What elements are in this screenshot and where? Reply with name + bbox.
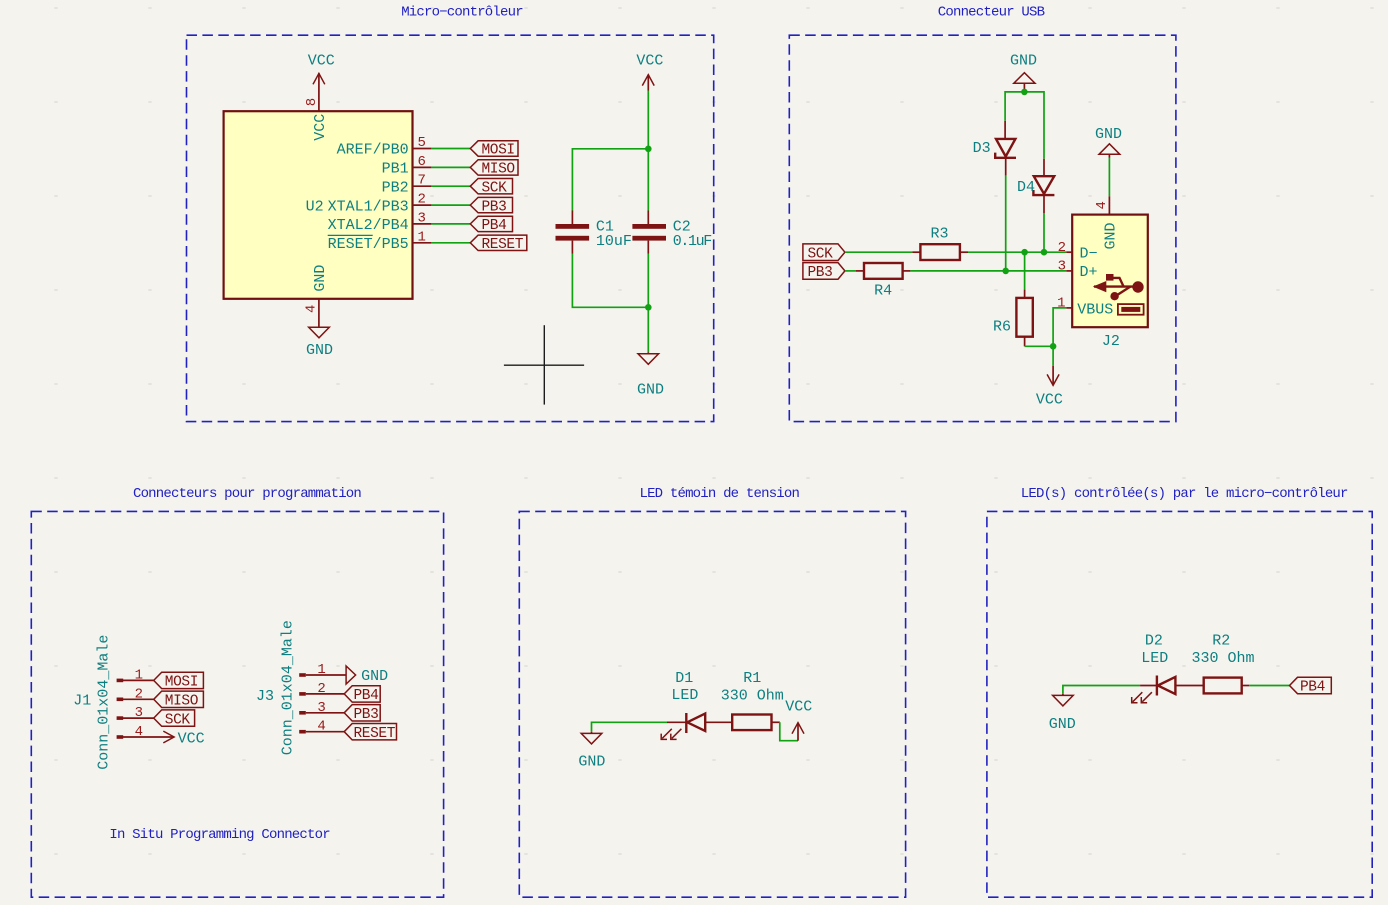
svg-text:PB2: PB2 — [382, 179, 409, 196]
wire VCC vertical — [647, 91, 649, 149]
wire R3 to J2 D- — [968, 251, 1066, 253]
hierarchical label SCK — [470, 179, 512, 197]
wire PB3 — [431, 204, 470, 206]
svg-text:RESET/PB5: RESET/PB5 — [328, 236, 409, 253]
resistor R1 — [732, 715, 780, 731]
svg-text:0.1uF: 0.1uF — [673, 233, 711, 250]
svg-text:D−: D− — [1080, 245, 1098, 262]
pin 4 line (U2 bottom) — [318, 299, 320, 327]
svg-text:U2: U2 — [306, 198, 324, 215]
svg-text:3: 3 — [417, 210, 425, 226]
global label MOSI (J1) — [154, 672, 204, 690]
J1 pin 3 — [117, 705, 154, 721]
section box Micro-controleur — [187, 35, 714, 421]
wire RESET — [431, 242, 470, 244]
resistor R3 — [912, 244, 968, 260]
svg-text:D3: D3 — [973, 140, 991, 157]
pin 5 AREF/PB0 — [337, 135, 432, 159]
svg-text:LED: LED — [671, 687, 698, 704]
section box LED temoin de tension — [519, 511, 905, 897]
hierarchical label PB3 — [470, 197, 512, 215]
svg-text:R2: R2 — [1212, 633, 1230, 650]
node junction VBUS/VCC — [1050, 343, 1057, 350]
svg-text:GND: GND — [1049, 716, 1076, 733]
svg-text:GND: GND — [637, 382, 664, 399]
hierarchical label PB4 — [470, 216, 512, 234]
svg-text:1: 1 — [135, 667, 143, 683]
svg-text:VCC: VCC — [1036, 392, 1063, 409]
J3 pin 1 — [299, 662, 346, 678]
svg-text:GND: GND — [1095, 126, 1122, 143]
power symbol VCC (down) — [1036, 366, 1063, 409]
power symbol VCC (above C2) — [636, 52, 663, 90]
svg-text:Conn_01x04_Male: Conn_01x04_Male — [280, 620, 297, 755]
svg-text:SCK: SCK — [165, 712, 191, 728]
svg-text:330 Ohm: 330 Ohm — [1192, 650, 1255, 667]
svg-text:GND: GND — [1010, 52, 1037, 69]
USB icon — [1093, 274, 1144, 315]
pin 2 D- — [1058, 240, 1098, 262]
capacitor C2 — [632, 211, 666, 254]
wire R2 to PB4 — [1249, 685, 1289, 687]
hierarchical label PB4 (D2) — [1290, 677, 1332, 695]
power symbol GND (right, inverted) — [1095, 126, 1122, 158]
resistor R2 — [1204, 678, 1249, 694]
diode D3 — [995, 121, 1016, 176]
svg-text:J1: J1 — [73, 692, 91, 709]
global label SCK (J1) — [154, 710, 195, 728]
svg-text:PB3: PB3 — [808, 265, 833, 281]
J3 pin 4 — [299, 719, 344, 735]
svg-text:3: 3 — [317, 700, 325, 716]
wire PB3 to R4 — [845, 270, 856, 272]
svg-text:VCC: VCC — [308, 52, 335, 69]
pin 3 XTAL2/PB4 — [328, 210, 432, 234]
power symbol GND (right, J3 pin 1) — [346, 666, 388, 685]
wire VCC drop — [1052, 346, 1054, 366]
svg-text:1: 1 — [417, 229, 425, 245]
svg-text:VCC: VCC — [785, 698, 812, 715]
wire R4 to J2 D+ — [910, 270, 1066, 272]
wire D3 to D+ — [1005, 176, 1007, 271]
power symbol VCC (above U2) — [308, 52, 335, 111]
resistor R4 — [856, 263, 910, 279]
pin 1 RESET/PB5 — [328, 229, 432, 253]
hierarchical label RESET — [470, 235, 527, 253]
svg-text:Conn_01x04_Male: Conn_01x04_Male — [96, 635, 113, 770]
svg-text:GND: GND — [312, 265, 329, 292]
wire SCK to R3 — [845, 251, 913, 253]
svg-text:2: 2 — [317, 681, 325, 697]
capacitor C1 — [556, 211, 590, 254]
ground symbol (D2) — [1053, 694, 1074, 706]
svg-text:6: 6 — [417, 154, 425, 170]
svg-text:1: 1 — [1057, 296, 1065, 312]
svg-text:RESET: RESET — [482, 237, 524, 253]
svg-text:3: 3 — [135, 705, 143, 721]
ground symbol (below U2) — [309, 327, 330, 338]
connector J2 body — [1072, 215, 1148, 328]
diode D4 — [1033, 159, 1054, 213]
LED D1 — [661, 713, 732, 739]
svg-text:2: 2 — [1058, 240, 1066, 256]
svg-text:SCK: SCK — [808, 246, 834, 262]
wire C1 branch top — [572, 149, 648, 211]
svg-text:GND: GND — [1103, 222, 1120, 249]
J3 pin 3 — [299, 700, 344, 716]
svg-text:XTAL1/PB3: XTAL1/PB3 — [328, 198, 409, 215]
svg-text:AREF/PB0: AREF/PB0 — [337, 142, 409, 159]
svg-text:VCC: VCC — [312, 114, 329, 141]
svg-text:MOSI: MOSI — [165, 675, 198, 691]
svg-text:VCC: VCC — [636, 52, 663, 69]
svg-text:1: 1 — [317, 662, 325, 678]
svg-text:PB4: PB4 — [482, 218, 507, 234]
ground symbol (below C2) — [638, 352, 659, 364]
wire R6 to VCC node — [1025, 345, 1054, 347]
svg-text:R3: R3 — [931, 226, 949, 243]
power symbol GND (top, inverted) — [1010, 52, 1037, 90]
svg-text:GND: GND — [306, 342, 333, 359]
svg-text:Micro−contrôleur: Micro−contrôleur — [401, 5, 523, 21]
wire GND to D1 — [592, 722, 668, 732]
svg-text:SCK: SCK — [482, 180, 508, 196]
svg-text:4: 4 — [135, 724, 143, 740]
pin 1 VBUS — [1057, 296, 1113, 319]
svg-text:5: 5 — [417, 135, 425, 151]
wire C1 branch bottom — [572, 254, 648, 308]
pin 2 XTAL1/PB3 — [328, 192, 432, 216]
svg-text:VCC: VCC — [178, 730, 205, 747]
svg-text:D+: D+ — [1080, 264, 1098, 281]
svg-text:8: 8 — [304, 98, 320, 106]
J1 pin 2 — [117, 686, 154, 702]
svg-text:Connecteurs pour programmation: Connecteurs pour programmation — [133, 486, 361, 502]
node junction R6/D- — [1021, 249, 1028, 256]
global label PB4 (J3) — [344, 686, 380, 704]
svg-text:4: 4 — [304, 305, 320, 313]
svg-text:VBUS: VBUS — [1077, 301, 1113, 318]
global label SCK — [803, 244, 845, 263]
svg-text:4: 4 — [1094, 201, 1110, 209]
wire GND to D2 — [1063, 686, 1140, 694]
svg-text:R1: R1 — [743, 670, 761, 687]
power symbol VCC (D1) — [785, 698, 812, 740]
svg-text:J2: J2 — [1102, 333, 1120, 350]
wire D4 to D- — [1043, 213, 1045, 252]
pin 4 line J2 — [1108, 196, 1110, 214]
global label MISO (J1) — [154, 691, 204, 709]
graphic cross line horizontal — [504, 364, 584, 366]
svg-text:LED: LED — [1141, 650, 1168, 667]
hierarchical label MISO — [470, 160, 518, 178]
J1 pin 1 — [117, 667, 154, 683]
svg-text:2: 2 — [417, 192, 425, 208]
pin 6 PB1 — [382, 154, 432, 178]
resistor R6 — [1016, 290, 1032, 347]
wire R1 to VCC — [780, 722, 798, 740]
pin 7 PB2 — [382, 173, 432, 197]
wire C2 top — [647, 149, 649, 211]
svg-text:PB3: PB3 — [482, 199, 507, 215]
wire GND header — [1005, 92, 1044, 159]
svg-text:XTAL2/PB4: XTAL2/PB4 — [328, 217, 409, 234]
svg-text:MISO: MISO — [482, 162, 515, 178]
svg-text:MOSI: MOSI — [482, 143, 515, 159]
svg-text:MISO: MISO — [165, 694, 198, 710]
svg-text:3: 3 — [1058, 259, 1066, 275]
wire D- to R6 — [1024, 252, 1026, 289]
wire GND to J2 pin 4 — [1108, 158, 1110, 197]
svg-text:In Situ Programming Connector: In Situ Programming Connector — [109, 827, 330, 843]
node junction D3/D+ — [1002, 268, 1009, 275]
ground symbol (D1) — [581, 732, 602, 744]
section box LED(s) controlee(s) — [987, 511, 1372, 897]
J3 pin 2 — [299, 681, 344, 697]
graphic cross line vertical — [543, 325, 545, 404]
J1 pin 4 — [117, 724, 175, 740]
svg-text:330 Ohm: 330 Ohm — [721, 687, 784, 704]
svg-text:LED témoin de tension: LED témoin de tension — [639, 486, 799, 502]
svg-text:10uF: 10uF — [596, 233, 632, 250]
power symbol VCC (right, J1 pin 4) — [163, 730, 204, 747]
svg-text:D2: D2 — [1145, 633, 1163, 650]
LED D2 — [1132, 676, 1204, 703]
svg-text:R6: R6 — [993, 319, 1011, 336]
svg-text:2: 2 — [135, 686, 143, 702]
wire VBUS riser — [1053, 308, 1066, 346]
svg-text:R4: R4 — [874, 283, 892, 300]
svg-text:J3: J3 — [256, 688, 274, 705]
section box Connecteurs pour programmation — [31, 511, 443, 897]
svg-text:LED(s) contrôlée(s) par le mic: LED(s) contrôlée(s) par le micro−contrôl… — [1021, 486, 1348, 502]
IC U2 body — [224, 111, 413, 299]
node junction GND — [645, 304, 652, 311]
wire to GND — [647, 307, 649, 352]
global label PB3 — [803, 263, 845, 282]
svg-text:PB4: PB4 — [1300, 680, 1325, 696]
svg-text:4: 4 — [317, 719, 325, 735]
node junction GND top — [1021, 89, 1028, 96]
svg-text:D1: D1 — [675, 670, 693, 687]
wire C2 bottom — [647, 254, 649, 308]
pin 3 D+ — [1058, 259, 1098, 281]
global label RESET (J3) — [344, 724, 396, 743]
node junction VCC — [645, 146, 652, 153]
svg-text:D4: D4 — [1017, 179, 1035, 196]
svg-text:PB3: PB3 — [354, 707, 379, 723]
svg-text:7: 7 — [417, 173, 425, 189]
svg-text:PB1: PB1 — [382, 161, 409, 178]
wire MISO — [431, 166, 470, 168]
svg-text:Connecteur USB: Connecteur USB — [938, 5, 1045, 21]
section box Connecteur USB — [789, 35, 1176, 421]
wire PB4 — [431, 223, 470, 225]
svg-text:GND: GND — [578, 754, 605, 771]
node junction D4/D- — [1041, 249, 1048, 256]
svg-text:RESET: RESET — [354, 726, 396, 742]
global label PB3 (J3) — [344, 705, 380, 723]
svg-text:GND: GND — [361, 668, 388, 685]
wire MOSI — [431, 148, 470, 150]
svg-text:PB4: PB4 — [354, 688, 379, 704]
hierarchical label MOSI — [470, 141, 518, 159]
wire SCK — [431, 185, 470, 187]
